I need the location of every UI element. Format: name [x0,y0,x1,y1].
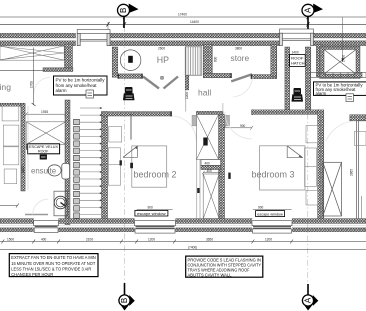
svg-text:B: B [119,8,128,13]
bedroom3 radiator tick [228,173,230,179]
svg-text:bedroom 3: bedroom 3 [252,169,295,179]
store bottom wall right part [251,75,277,79]
bottom window left [34,219,59,233]
svg-text:EXTRACT FAN TO EN-SUITE TO HAV: EXTRACT FAN TO EN-SUITE TO HAVE A MIN [11,255,96,261]
svg-text:ROOF: ROOF [38,150,49,154]
EXTRACT FAN note box [9,254,98,278]
bedroom3 bedside units column [305,126,318,205]
stair balusters column [74,119,80,218]
bedroom3 door dimension [223,126,253,130]
shaft lower dim [202,171,221,175]
bedroom2 door leaf stub [192,115,196,126]
HP room bottom wall [118,74,142,79]
bedroom2 door arc [171,116,196,141]
bath left edge fixtures [2,106,19,183]
bottom exterior wall inner leaf [0,228,366,232]
WC cistern [62,163,70,179]
svg-text:1200: 1200 [148,238,155,242]
svg-text:2865: 2865 [350,169,354,176]
ensuite left wall [21,103,25,191]
grid marker A bottom [302,284,318,311]
ensuite door leaf [25,214,48,216]
svg-text:1400: 1400 [292,50,299,54]
left wall inner face line [27,106,29,190]
far right room wall vertical (double line) [357,121,362,219]
shaft top cap wall [196,111,223,114]
PV note box right [314,82,366,96]
leader symbol under right PV box [346,94,354,102]
escape window 1 [135,219,176,233]
svg-text:1200: 1200 [185,92,189,99]
eaves zone right wall [65,44,73,70]
stairs right wall [102,112,108,220]
door jamb caps [118,73,253,116]
store right wall [271,45,277,77]
flue blob in shaft [203,138,207,146]
attic corridor right wall upper [305,47,311,110]
shower tray [54,191,68,216]
bottom dimension line with ticks [0,240,366,244]
bedroom2 radiator tick [120,160,122,165]
PROVIDE CODE 5 LEAD note box [186,256,263,277]
bed 2 [123,146,167,187]
bedroom2 top wall [102,112,172,116]
svg-text:alarm: alarm [316,91,327,96]
svg-text:1935: 1935 [41,110,48,114]
access hatch label box [290,54,306,66]
right roof hatch shaft X box [323,162,342,216]
shaft right wall [219,114,225,220]
WC pan [48,165,61,176]
svg-text:A: A [304,7,313,13]
left side dimension tick [0,204,19,208]
ensuite door arc [33,199,48,214]
stair treads [80,108,101,215]
eaves zone bottom wall [43,68,73,72]
svg-text:LESS THAN 15L/SEC & TO PROVIDE: LESS THAN 15L/SEC & TO PROVIDE 3 AIR [11,266,91,272]
bedroom3 right wall [318,110,324,222]
top dimension line 17400 [0,15,366,31]
svg-text:HATCH: HATCH [291,62,305,66]
escape window label 1 [135,209,173,216]
ensuite top wall from left edge [0,103,21,106]
stairs left wall [65,100,70,225]
store door swing arc [233,77,253,98]
svg-text:1700: 1700 [29,81,33,88]
svg-text:ing: ing [0,82,11,92]
grid marker B top [118,4,139,29]
svg-text:900: 900 [258,206,264,210]
smoke alarm symbol right corridor [292,88,304,102]
svg-text:14400: 14400 [190,20,199,24]
svg-text:17400: 17400 [178,13,187,17]
tread end dots [100,107,102,208]
svg-text:ROOF: ROOF [291,56,304,60]
vertical striped shelving block [185,47,202,75]
landing door arc [34,77,51,93]
grid marker B bottom [119,283,135,311]
hall corner line [222,103,224,111]
svg-text:400: 400 [207,169,213,173]
far right door arc [326,121,356,141]
bedroom2 wardrobe mid [109,148,121,185]
escape window label 2 [253,209,292,216]
svg-text:ABUTTS CAVITY WALL: ABUTTS CAVITY WALL [188,272,232,277]
bed 3 [260,146,305,190]
bedroom3 door arc [225,112,252,139]
shaft middle divider [201,160,221,170]
far right room corner wall horizontal [350,115,366,121]
bed2 black tick [130,163,133,168]
svg-text:from any smoke/heat: from any smoke/heat [56,83,98,88]
bedroom3 top wall [252,110,320,115]
top right door leaf [323,48,336,56]
top exterior cavity wall outer leaf [0,33,366,38]
extract fan symbol [40,155,47,160]
svg-text:bedroom 2: bedroom 2 [134,169,177,179]
svg-text:900: 900 [148,205,154,209]
top exterior cavity wall inner leaf [0,41,366,46]
window 1 in top wall [77,30,110,46]
PV note box left [54,76,108,95]
svg-text:900: 900 [240,124,246,128]
hall dim extension line [185,90,187,112]
grid marker A top [302,4,323,30]
shelf row below rooflight [311,73,366,78]
svg-text:escape window: escape window [257,212,283,216]
bottom exterior wall outer leaf [0,219,366,224]
store left wall [203,45,212,77]
svg-text:A: A [304,297,313,303]
window 2 in top wall (store window) [280,29,314,46]
grid line B dashed vertical [124,26,126,284]
grid line A dashed vertical [307,28,309,284]
store door jamb piece [185,75,189,90]
bedroom2 wardrobe top [109,127,122,143]
svg-text:3650: 3650 [206,238,213,242]
shaft left band lines [197,160,200,219]
HP room left wall [112,47,118,77]
shaft X panel lower [203,174,219,219]
left vertical dim line [29,48,35,107]
svg-text:store: store [231,53,250,63]
svg-text:3800: 3800 [235,47,242,51]
hot water cylinder in HP [120,50,141,71]
escape window 2 [252,219,292,233]
small cabinet far right [354,132,366,146]
svg-text:2100: 2100 [86,238,93,242]
leader symbol under left PV box [86,90,94,98]
void hatched sill [26,144,59,149]
bottom overall dimension line [0,249,366,251]
svg-text:1200: 1200 [265,238,272,242]
svg-text:CHANGES PER HOUR: CHANGES PER HOUR [11,272,53,278]
store door leaf [231,74,252,81]
smoke alarm symbol hall left [123,87,135,100]
rooflight vertical dim line [342,17,344,62]
svg-text:600: 600 [214,56,218,62]
store bottom wall left part [203,73,231,77]
left eaves zone bowtie cross [0,46,64,60]
bedroom3 right wall top piece [316,45,322,77]
HP double door leaves [143,77,178,89]
bedroom3 door leaf stub [225,115,230,126]
svg-text:2100: 2100 [21,166,25,173]
svg-text:15 MINUTE OVER RUN TO OPERATE: 15 MINUTE OVER RUN TO OPERATE AT NOT [11,261,95,267]
svg-text:escape window: escape window [137,212,166,216]
svg-text:alarm: alarm [56,88,67,93]
svg-text:B: B [120,298,129,303]
svg-text:2600: 2600 [158,47,165,51]
svg-text:ensuite: ensuite [31,166,56,175]
svg-text:2400: 2400 [342,55,346,62]
svg-text:400: 400 [205,162,211,166]
svg-text:HP: HP [157,55,169,65]
top right rooflight cross [324,50,356,75]
void label box [28,144,60,154]
dimension line over void [25,112,67,116]
attic corridor left wall [285,47,290,111]
svg-text:1500: 1500 [7,238,14,242]
svg-text:(7400): (7400) [188,246,197,250]
svg-text:hall: hall [198,88,211,98]
ceiling pendant symbol in HP doorway [161,76,164,79]
svg-text:PV to be 1m horizontally: PV to be 1m horizontally [56,77,106,82]
stairwell void rooflight box [26,122,66,145]
shaft X panel upper [196,114,218,159]
bottom wall cavity line [0,224,366,226]
shower symbol [54,196,67,209]
svg-text:ESCAPE VELUX: ESCAPE VELUX [29,145,59,149]
svg-text:400: 400 [41,238,47,242]
bedroom2 door leaf [130,114,132,140]
top right rooflight frame [320,46,360,78]
